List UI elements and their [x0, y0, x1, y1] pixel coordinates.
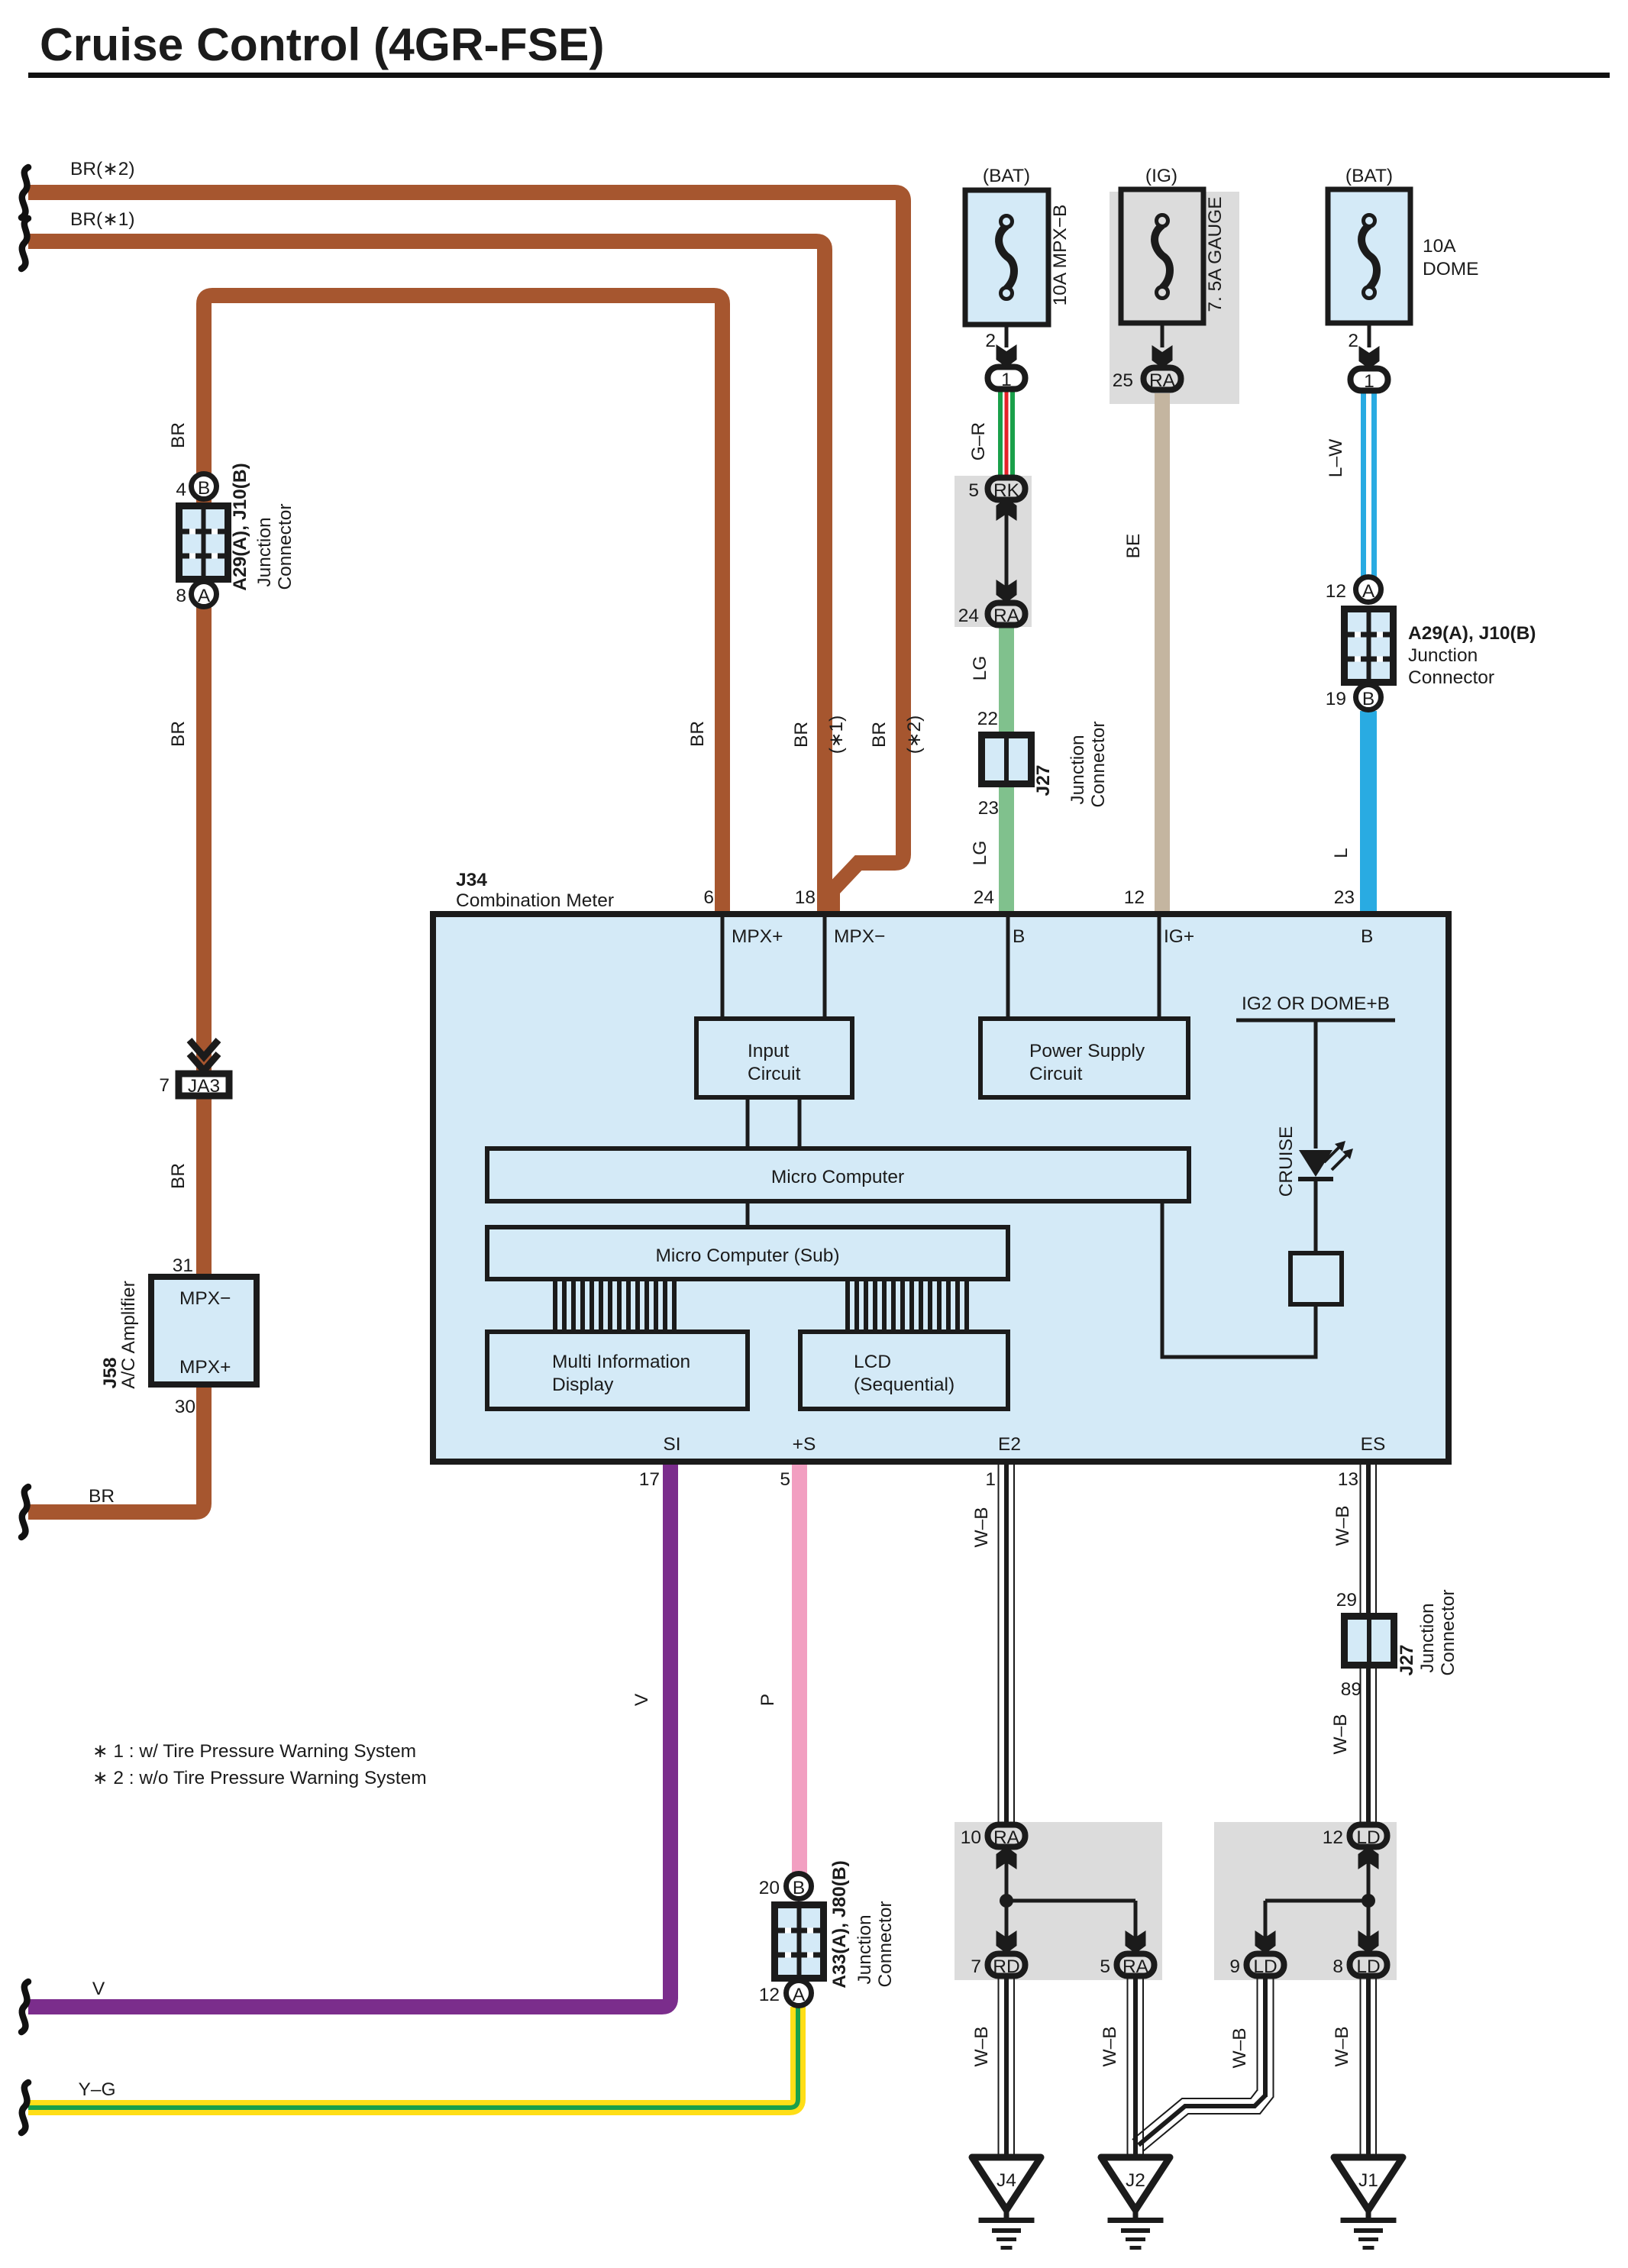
- svg-text:B: B: [1361, 926, 1373, 947]
- wire W-B E2 pin1 down to 10 RA: [998, 1465, 1016, 1822]
- svg-text:89: 89: [1341, 1679, 1362, 1700]
- svg-text:7: 7: [971, 1956, 981, 1977]
- internal wire LED chain from IG2 line to square to micro: [1162, 1020, 1316, 1357]
- connector oval RA 25: [1144, 368, 1181, 390]
- svg-text:∗ 2 : w/o Tire Pressure Warnin: ∗ 2 : w/o Tire Pressure Warning System: [92, 1768, 427, 1788]
- svg-text:A29(A), J10(B): A29(A), J10(B): [230, 463, 250, 590]
- internal wire Micro Computer to Sub: [746, 1201, 750, 1227]
- svg-text:10A: 10A: [1423, 236, 1456, 257]
- svg-text:W–B: W–B: [1229, 2027, 1250, 2068]
- svg-text:MPX+: MPX+: [179, 1357, 231, 1378]
- J34 Combination Meter box: [433, 914, 1449, 1462]
- svg-text:2: 2: [985, 331, 996, 351]
- internal wire pin18 to Input Circuit: [823, 917, 827, 1019]
- svg-text:RD: RD: [993, 1956, 1019, 1977]
- JA3 box: [179, 1074, 229, 1096]
- svg-text:(∗1): (∗1): [826, 716, 847, 754]
- svg-text:Connector: Connector: [1438, 1589, 1458, 1675]
- wire P from +S pin to B circle: [792, 1465, 807, 1873]
- svg-text:J1: J1: [1358, 2170, 1378, 2191]
- Micro Computer (Sub) bar: [487, 1227, 1008, 1279]
- svg-text:B: B: [1013, 926, 1025, 947]
- wire L-W (double blue thin): [1361, 392, 1377, 577]
- svg-text:BR(∗1): BR(∗1): [70, 209, 135, 230]
- svg-text:LD: LD: [1356, 1827, 1380, 1848]
- svg-text:Junction: Junction: [1068, 735, 1088, 804]
- svg-text:20: 20: [759, 1878, 780, 1898]
- svg-text:10A MPX−B: 10A MPX−B: [1050, 205, 1071, 306]
- svg-text:Combination Meter: Combination Meter: [456, 890, 614, 911]
- svg-text:BE: BE: [1123, 534, 1144, 559]
- fuse 10A MPX-B: [965, 190, 1048, 325]
- wire W-B from 5 RA down to ground J2: [1127, 1979, 1145, 2157]
- left junction connector A29(A),J10(B): [192, 474, 217, 499]
- wire BR(*1) horizontal + vertical to pin 18: [28, 241, 825, 913]
- svg-text:+S: +S: [793, 1434, 816, 1455]
- svg-text:BR: BR: [89, 1486, 115, 1507]
- svg-text:W–B: W–B: [1332, 2026, 1352, 2066]
- ground J4: [972, 2157, 1041, 2250]
- wire V from SI pin down and left: [28, 1465, 670, 2007]
- ovals 12 LD / 9 LD / 8 LD: [1350, 1825, 1387, 1847]
- svg-text:12: 12: [1124, 887, 1145, 908]
- svg-text:Connector: Connector: [875, 1901, 896, 1987]
- svg-text:ES: ES: [1361, 1434, 1386, 1455]
- junction connector A29(A),J10(B) right: [1356, 577, 1381, 603]
- svg-text:LCD: LCD: [854, 1352, 891, 1372]
- svg-text:7. 5A GAUGE: 7. 5A GAUGE: [1205, 196, 1226, 312]
- grey box bottom-right (LD/LD/LD relay block): [1214, 1822, 1397, 1980]
- svg-text:Circuit: Circuit: [1029, 1064, 1083, 1084]
- internal wire pin6 to Input Circuit: [721, 917, 725, 1019]
- svg-text:RA: RA: [1149, 370, 1176, 391]
- svg-text:(BAT): (BAT): [983, 166, 1030, 186]
- LCD (Sequential) box: [800, 1332, 1008, 1409]
- svg-text:5: 5: [968, 480, 979, 501]
- svg-text:LG: LG: [970, 656, 990, 681]
- svg-text:MPX−: MPX−: [179, 1288, 231, 1309]
- svg-text:12: 12: [1326, 581, 1346, 602]
- svg-text:RA: RA: [993, 1827, 1020, 1848]
- svg-text:RK: RK: [993, 480, 1020, 501]
- svg-text:J34: J34: [456, 870, 487, 890]
- svg-text:25: 25: [1113, 370, 1133, 391]
- svg-text:5: 5: [780, 1469, 790, 1490]
- J58 A/C Amplifier box: [151, 1277, 257, 1384]
- JA3 chevron double arrow: [189, 1040, 218, 1071]
- wire Y-G from A circle down and left: [28, 2007, 798, 2108]
- svg-text:18: 18: [795, 887, 816, 908]
- svg-text:(∗2): (∗2): [904, 716, 925, 754]
- ribbon comb right: [848, 1279, 967, 1332]
- svg-text:P: P: [757, 1694, 778, 1706]
- svg-text:J2: J2: [1126, 2170, 1145, 2191]
- svg-text:CRUISE: CRUISE: [1276, 1126, 1297, 1197]
- svg-text:A: A: [793, 1985, 806, 2005]
- svg-text:Cruise Control (4GR-FSE): Cruise Control (4GR-FSE): [40, 18, 604, 70]
- svg-text:LD: LD: [1356, 1956, 1380, 1977]
- svg-text:(Sequential): (Sequential): [854, 1375, 955, 1395]
- svg-text:Connector: Connector: [1408, 667, 1494, 688]
- svg-text:1: 1: [985, 1469, 996, 1490]
- LED CRUISE indicator: [1298, 1141, 1353, 1181]
- grey block right internals: [1255, 1846, 1379, 1953]
- svg-text:7: 7: [159, 1075, 170, 1096]
- svg-text:24: 24: [958, 606, 979, 626]
- svg-text:Micro Computer (Sub): Micro Computer (Sub): [656, 1245, 840, 1266]
- svg-text:8: 8: [176, 586, 186, 606]
- svg-text:23: 23: [978, 798, 999, 819]
- svg-text:V: V: [92, 1979, 105, 1999]
- svg-text:V: V: [631, 1693, 652, 1706]
- internal wire pin24 to Power Supply: [1006, 917, 1010, 1019]
- ground J1: [1334, 2157, 1403, 2250]
- svg-text:24: 24: [974, 887, 994, 908]
- svg-text:17: 17: [639, 1469, 660, 1490]
- svg-text:B: B: [793, 1878, 805, 1898]
- svg-text:23: 23: [1334, 887, 1355, 908]
- wire W-B from 9 LD down with jog joining J2 wire: [1132, 1979, 1274, 2151]
- wire W-B ES pin13 down to 12 LD: [1360, 1465, 1378, 1822]
- svg-text:4: 4: [176, 480, 186, 500]
- svg-text:MPX−: MPX−: [834, 926, 885, 947]
- svg-text:Multi Information: Multi Information: [552, 1352, 690, 1372]
- wire W-B from 8 LD down to ground J1: [1360, 1979, 1378, 2157]
- svg-text:J27: J27: [1033, 765, 1054, 796]
- svg-text:∗ 1 : w/ Tire Pressure Warning: ∗ 1 : w/ Tire Pressure Warning System: [92, 1741, 416, 1762]
- svg-text:Power Supply: Power Supply: [1029, 1041, 1145, 1061]
- svg-text:10: 10: [961, 1827, 981, 1848]
- wire W-B from 7 RD down to ground J4: [998, 1979, 1016, 2157]
- svg-text:J58: J58: [100, 1358, 121, 1389]
- svg-text:Y–G: Y–G: [78, 2079, 115, 2100]
- svg-text:SI: SI: [663, 1434, 680, 1455]
- svg-text:BR: BR: [687, 721, 708, 747]
- svg-text:13: 13: [1338, 1469, 1358, 1490]
- svg-text:W–B: W–B: [1332, 1505, 1353, 1546]
- svg-text:2: 2: [1348, 331, 1358, 351]
- svg-text:12: 12: [1323, 1827, 1343, 1848]
- svg-text:A29(A), J10(B): A29(A), J10(B): [1408, 623, 1536, 644]
- svg-text:6: 6: [703, 887, 714, 908]
- svg-text:W–B: W–B: [1330, 1714, 1351, 1754]
- svg-text:BR: BR: [168, 721, 189, 747]
- svg-text:BR: BR: [869, 722, 890, 748]
- Input Circuit box: [696, 1019, 852, 1097]
- svg-text:IG2 OR DOME+B: IG2 OR DOME+B: [1242, 993, 1390, 1014]
- svg-text:Junction: Junction: [1417, 1603, 1438, 1672]
- connector oval 1 (fuse DOME): [1351, 369, 1388, 391]
- junction connector A33(A),J80(B): [787, 1874, 812, 1899]
- Micro Computer bar: [487, 1149, 1189, 1201]
- svg-text:Input: Input: [748, 1041, 790, 1061]
- svg-text:MPX+: MPX+: [732, 926, 783, 947]
- connector pair RK/RA with arrows: [1005, 504, 1009, 600]
- svg-text:8: 8: [1332, 1956, 1343, 1977]
- svg-text:A33(A), J80(B): A33(A), J80(B): [829, 1860, 850, 1988]
- svg-text:RA: RA: [1122, 1956, 1149, 1977]
- svg-text:RA: RA: [993, 606, 1020, 626]
- grey box around RK/RA connector pair: [955, 476, 1032, 627]
- svg-text:1: 1: [1364, 371, 1374, 392]
- svg-text:29: 29: [1336, 1590, 1357, 1611]
- svg-text:L–W: L–W: [1326, 438, 1346, 477]
- svg-text:W–B: W–B: [971, 1507, 992, 1547]
- svg-text:(BAT): (BAT): [1345, 166, 1393, 186]
- wire BE from fuse IG to pin 12: [1155, 393, 1170, 915]
- svg-text:BR(∗2): BR(∗2): [70, 159, 135, 179]
- wire L thick blue: [1360, 711, 1377, 915]
- svg-text:JA3: JA3: [188, 1076, 220, 1097]
- svg-text:12: 12: [759, 1985, 780, 2005]
- svg-text:B: B: [1362, 689, 1374, 709]
- svg-text:G–R: G–R: [968, 422, 989, 460]
- svg-text:Circuit: Circuit: [748, 1064, 801, 1084]
- square box under LED: [1290, 1253, 1342, 1304]
- fuse 10A DOME: [1328, 189, 1410, 323]
- svg-text:Junction: Junction: [254, 517, 275, 586]
- ovals 10 RA / 7 RD / 5 RA: [988, 1825, 1026, 1847]
- svg-text:1: 1: [1001, 370, 1012, 390]
- svg-text:LG: LG: [970, 841, 990, 866]
- svg-text:(IG): (IG): [1145, 166, 1177, 186]
- svg-text:Junction: Junction: [854, 1914, 875, 1984]
- svg-text:BR: BR: [791, 722, 812, 748]
- svg-text:J4: J4: [997, 2170, 1016, 2191]
- svg-text:L: L: [1331, 848, 1352, 858]
- svg-text:22: 22: [977, 709, 998, 729]
- wire BR(*2) top horizontal + right vertical: [28, 192, 903, 913]
- svg-text:A: A: [198, 586, 211, 606]
- svg-text:J27: J27: [1397, 1645, 1417, 1676]
- svg-text:Junction: Junction: [1408, 645, 1478, 666]
- junction connector J27 (top): [982, 735, 1032, 784]
- svg-text:A: A: [1362, 581, 1375, 602]
- svg-text:BR: BR: [168, 422, 189, 448]
- svg-text:9: 9: [1229, 1956, 1240, 1977]
- Multi Information Display box: [487, 1332, 748, 1409]
- wire continuation squiggles: [21, 167, 28, 218]
- wire G-R (green-red) fuse1 to RK: [998, 391, 1015, 477]
- svg-text:Micro Computer: Micro Computer: [771, 1167, 904, 1187]
- wire BR U-shape: J58 pin31 up, across, down to pin 6: [204, 296, 722, 1277]
- wire BR from J58 pin30 down then left: [28, 1384, 204, 1512]
- grey box around 7.5A GAUGE fuse: [1110, 192, 1239, 404]
- svg-text:Connector: Connector: [275, 503, 296, 590]
- internal wire pin12 to Power Supply: [1158, 917, 1161, 1019]
- svg-text:IG+: IG+: [1164, 926, 1194, 947]
- junction connector J27 bottom: [1345, 1617, 1394, 1665]
- svg-text:W–B: W–B: [1100, 2026, 1120, 2066]
- svg-text:Connector: Connector: [1088, 721, 1109, 807]
- ribbon comb left: [555, 1279, 674, 1332]
- Power Supply Circuit box: [980, 1019, 1188, 1097]
- svg-text:E2: E2: [998, 1434, 1021, 1455]
- svg-text:A/C Amplifier: A/C Amplifier: [118, 1281, 139, 1389]
- grey box bottom-left (RA/RD/RA relay block): [955, 1822, 1162, 1980]
- connector oval 1 (fuse MPX-B): [988, 367, 1026, 389]
- title underline: [28, 73, 1610, 78]
- svg-text:LD: LD: [1253, 1956, 1277, 1977]
- svg-text:BR: BR: [168, 1163, 189, 1189]
- svg-text:30: 30: [175, 1397, 195, 1417]
- svg-text:5: 5: [1100, 1956, 1110, 1977]
- svg-text:DOME: DOME: [1423, 259, 1479, 279]
- svg-text:W–B: W–B: [971, 2026, 992, 2066]
- svg-text:31: 31: [173, 1255, 193, 1276]
- fuse 7.5A GAUGE: [1121, 189, 1203, 323]
- svg-text:B: B: [198, 478, 210, 499]
- ground J2: [1101, 2157, 1170, 2250]
- svg-text:19: 19: [1326, 689, 1346, 709]
- svg-text:Display: Display: [552, 1375, 614, 1395]
- grey block left internals: [997, 1846, 1146, 1953]
- internal wires Input Circuit to Micro Computer: [746, 1097, 750, 1149]
- wire LG from RA down to pin 24: [999, 626, 1014, 915]
- fuse output line + pin 2 + arrow: [1005, 325, 1009, 347]
